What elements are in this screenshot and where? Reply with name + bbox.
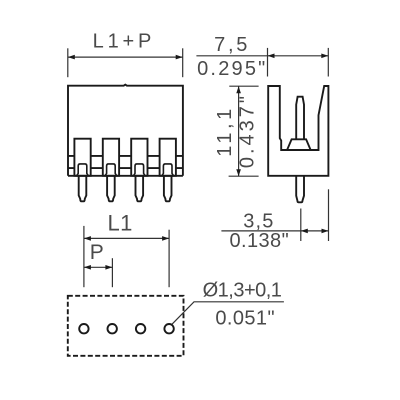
dimension P line <box>84 266 113 268</box>
dimension 7,5 line <box>196 55 328 57</box>
dimension 11,1 arrow down <box>236 169 241 176</box>
hole diameter leader line <box>172 302 284 325</box>
dimension 11,1 extension line bottom <box>229 175 259 177</box>
dimension L1+P extension line right <box>182 48 184 77</box>
pin housing 2 <box>103 139 119 176</box>
svg-text:L1+P: L1+P <box>93 31 155 53</box>
svg-text:0.051": 0.051" <box>215 308 275 330</box>
dimension L1+P arrow left <box>68 55 75 60</box>
dimension 3,5 arrow left <box>301 229 308 234</box>
dimension L1 extension line right <box>168 230 170 288</box>
svg-text:0.295": 0.295" <box>197 58 267 80</box>
pin 4 solder pin <box>164 176 172 202</box>
svg-text:0.138": 0.138" <box>230 230 290 252</box>
pin 2 solder pin <box>107 176 115 202</box>
pin 1 solder pin <box>79 176 87 202</box>
dimension P extension line right <box>111 258 113 287</box>
top view hole 1 <box>79 324 88 333</box>
front view body lower edge segments (upper) <box>68 155 183 157</box>
svg-text:Ø1,3+0,1: Ø1,3+0,1 <box>203 279 282 301</box>
top view dashed body outline <box>68 296 184 356</box>
pin 2 shoulder <box>105 164 117 176</box>
dimension 7,5 extension line left <box>267 48 269 77</box>
top view hole 2 <box>108 324 117 333</box>
pin 4 shoulder <box>162 164 174 176</box>
front view body outline with polarization bump <box>68 85 183 176</box>
side view solder pin <box>296 176 304 203</box>
dimension L1 arrow left <box>84 236 91 241</box>
pin housing 3 <box>131 139 147 176</box>
dimension 7,5 arrow left <box>268 54 275 59</box>
dimension 11,1 extension line top <box>229 85 258 87</box>
pin housing 4 <box>160 139 176 176</box>
dimension L1 extension line left <box>83 226 85 287</box>
dimension L1+P extension line left <box>67 48 69 77</box>
dimension 3,5 arrow right <box>322 229 329 234</box>
dimension L1+P arrow right <box>176 55 183 60</box>
dimension 11,1 arrow up <box>236 86 241 93</box>
side view body outline <box>268 86 328 176</box>
dimension 11,1 line <box>238 86 240 176</box>
side view center contact pin <box>296 97 304 140</box>
svg-text:7,5: 7,5 <box>214 34 250 56</box>
dimension L1 arrow right <box>162 236 169 241</box>
dimension 3,5 line <box>221 230 328 232</box>
pin 1 shoulder <box>77 164 89 176</box>
pin 3 solder pin <box>136 176 144 202</box>
top view hole 3 <box>136 324 145 333</box>
pin housing 1 <box>74 139 90 176</box>
dimension P arrow left <box>84 265 91 270</box>
svg-text:L1: L1 <box>108 211 133 236</box>
dimension L1+P line <box>68 56 183 58</box>
dimension 3,5 extension line right <box>328 189 330 241</box>
front view body lower edge segments (lower) <box>68 167 183 169</box>
dimension 7,5 arrow right <box>321 54 328 59</box>
side view pin base trapezoid <box>287 139 311 150</box>
pin 3 shoulder <box>133 164 145 176</box>
svg-text:P: P <box>90 241 104 264</box>
front view body bottom line <box>68 175 183 177</box>
svg-text:11,1: 11,1 <box>214 105 236 156</box>
dimension 3,5 extension line left <box>300 209 302 242</box>
dimension P arrow right <box>105 265 112 270</box>
top view hole 4 <box>164 324 173 333</box>
dimension 7,5 extension line right <box>327 48 329 77</box>
svg-text:0.437": 0.437" <box>237 93 259 168</box>
dimension L1 line <box>84 237 169 239</box>
